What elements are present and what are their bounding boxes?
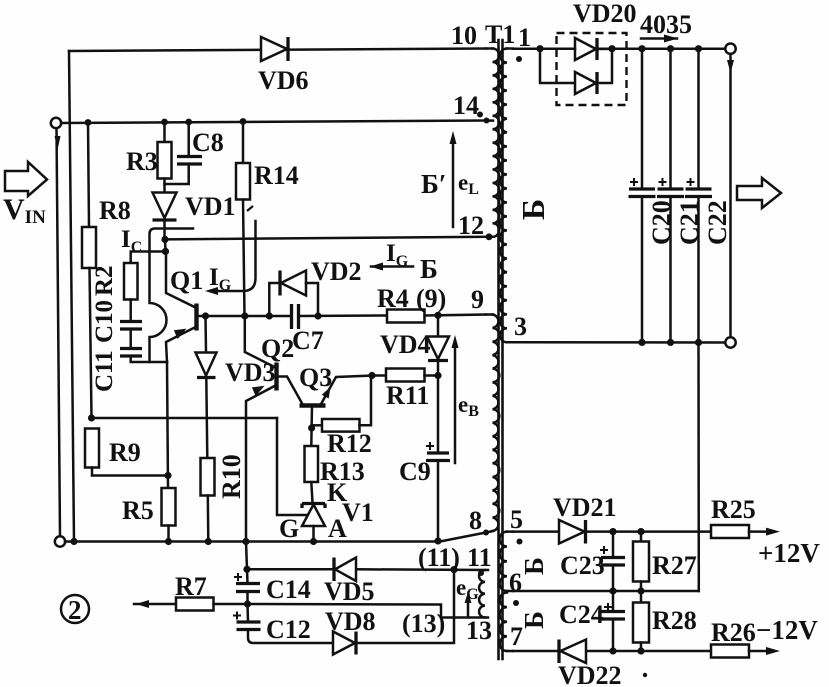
junction VD8 riser top <box>450 566 457 573</box>
svg-text:R4: R4 <box>377 284 409 313</box>
resistor R13 <box>305 428 319 503</box>
V1 label <box>342 498 374 527</box>
resistor R8 <box>82 123 96 418</box>
junction VD2 left <box>266 312 273 319</box>
svg-text:R3: R3 <box>126 147 158 176</box>
T1 secondary winding 5-6 <box>500 532 513 591</box>
junction collector node <box>162 239 169 255</box>
VD1 label <box>185 192 236 221</box>
pin 11 label <box>467 543 492 572</box>
svg-text:Б: Б <box>519 557 549 575</box>
polarity dot winding 6-7 <box>513 600 519 606</box>
svg-text:C11: C11 <box>91 350 118 392</box>
resistor R27 <box>633 532 649 591</box>
svg-text:14: 14 <box>453 91 479 120</box>
wire 9 to winding <box>438 313 486 316</box>
junction VD1 / 12-rail <box>161 236 168 243</box>
resistor R14 <box>236 122 250 317</box>
R4 label <box>377 284 409 313</box>
diode VD22 <box>559 640 586 664</box>
output terminal top <box>725 44 735 54</box>
e_L label <box>458 170 479 198</box>
junction C20 top <box>638 45 645 52</box>
svg-text:Q1: Q1 <box>170 266 203 295</box>
svg-text:5: 5 <box>510 505 523 534</box>
VD22 label <box>558 661 622 687</box>
wire output load line <box>727 54 734 337</box>
Q3 label <box>299 363 332 392</box>
pin 5 label <box>510 505 523 534</box>
svg-text:C22: C22 <box>703 200 732 245</box>
I_G label right <box>386 240 409 270</box>
R13 label <box>320 457 365 486</box>
C21 rotated label <box>675 200 704 245</box>
V_IN block arrow <box>5 162 47 196</box>
pin 6 label <box>509 568 522 597</box>
transformer T1 core <box>499 40 503 659</box>
junction Q2 emitter bottom <box>242 538 249 545</box>
transistor Q2 <box>245 316 303 542</box>
diode VD3 <box>196 316 217 458</box>
svg-text:8: 8 <box>469 506 482 535</box>
wire left input vertical <box>55 128 61 536</box>
wire left return vertical <box>69 51 74 542</box>
diode VD8 <box>333 632 356 655</box>
winding mark B 5-6 rotated <box>519 557 549 575</box>
T1 secondary winding 6-7 <box>500 593 513 652</box>
R28 label <box>652 606 697 635</box>
R27 label <box>652 551 697 580</box>
VD20 dashed box <box>557 33 627 105</box>
VD20 label <box>573 0 637 28</box>
junction Q3 base / R12 / R13 <box>308 424 315 431</box>
polarity dot pin 14 <box>477 112 483 118</box>
svg-text:C24: C24 <box>559 600 604 629</box>
junction R27 top <box>637 528 644 535</box>
VD21 label <box>553 493 617 522</box>
svg-text:3: 3 <box>514 312 527 341</box>
T1 feedback winding 11-13 <box>479 570 485 618</box>
junction R5 bottom <box>165 538 172 545</box>
annotation e_G arrow <box>465 592 472 616</box>
svg-text:Q3: Q3 <box>299 363 332 392</box>
svg-text:(9): (9) <box>416 284 446 313</box>
VD4 label <box>380 330 431 359</box>
resistor R9 <box>85 429 168 476</box>
wire secondary bottom rail pin 3 <box>513 341 725 344</box>
svg-text:10: 10 <box>451 21 477 50</box>
output terminal bottom <box>725 337 735 347</box>
speck mark <box>643 673 647 677</box>
polarity dot pin 11 <box>478 570 484 576</box>
junction C23 bottom <box>609 587 616 594</box>
wire secondary top rail <box>513 47 725 50</box>
thyristor V1 <box>277 418 325 542</box>
VD8 label <box>325 607 376 636</box>
svg-text:R12: R12 <box>327 429 372 458</box>
pin 7 label <box>510 622 523 651</box>
C14 label <box>266 575 311 604</box>
V1 K label <box>327 478 348 507</box>
wire R7 node to pin 13 <box>248 604 488 618</box>
winding mark B near e_L <box>421 169 446 199</box>
junction pin 12 <box>486 233 493 240</box>
svg-text:R8: R8 <box>99 196 131 225</box>
winding mark B 6-7 rotated <box>519 611 549 629</box>
junction VD4 / R11 / C9 <box>434 372 441 379</box>
+12V label <box>758 538 820 568</box>
pin 12 label <box>458 211 484 240</box>
pin 3 label <box>514 312 527 341</box>
diode VD6 <box>261 37 288 61</box>
polarity dot pin 1 <box>516 56 522 62</box>
C7 label <box>292 326 324 355</box>
diode VD20 upper <box>540 38 612 60</box>
capacitor C12 <box>233 612 261 630</box>
junction R8 top <box>85 119 92 126</box>
V1 A label <box>328 514 347 543</box>
svg-text:VD8: VD8 <box>325 607 376 636</box>
svg-text:−12V: −12V <box>756 615 818 645</box>
node (11) label <box>418 543 460 572</box>
pin 9 label <box>471 285 484 314</box>
R11 label <box>386 381 429 410</box>
resistor R11 <box>372 369 438 382</box>
R25 label <box>711 495 756 524</box>
svg-text:G: G <box>279 514 299 543</box>
capacitor C21 <box>657 49 684 343</box>
svg-text:T1: T1 <box>485 20 515 49</box>
R9 label <box>109 438 141 467</box>
resistor R4 <box>387 310 438 323</box>
capacitor C7 <box>292 304 299 329</box>
svg-text:Б′: Б′ <box>421 169 446 199</box>
T1 primary winding 10-14 and 14-12 <box>486 49 499 237</box>
junction VD3 top <box>202 312 209 319</box>
svg-text:4035: 4035 <box>640 10 692 39</box>
junction bottom rail left return <box>70 538 77 545</box>
resistor R28 <box>633 591 649 651</box>
VD5 label <box>324 577 375 606</box>
wire VD5 row <box>247 568 488 571</box>
pin 1 label <box>518 23 531 52</box>
I_G label left <box>209 264 232 294</box>
svg-text:13: 13 <box>466 616 492 645</box>
wire pin 6 rail <box>513 590 699 593</box>
svg-text:R11: R11 <box>386 381 429 410</box>
diode VD20 lower <box>540 49 612 94</box>
output block arrow <box>737 178 781 208</box>
junction pin 8 <box>483 530 489 536</box>
diode VD21 <box>559 520 586 544</box>
svg-text:C9: C9 <box>399 457 431 486</box>
svg-text:11: 11 <box>467 543 492 572</box>
annotation R7 arrow <box>134 600 176 608</box>
junction R28 bottom <box>637 647 644 654</box>
wire top rail to pin 10 <box>69 49 486 52</box>
wire 14-rail <box>61 121 486 124</box>
svg-text:2: 2 <box>68 595 82 625</box>
input terminal top-left <box>51 118 61 128</box>
wire gate rail <box>92 417 278 420</box>
R3 label <box>126 147 158 176</box>
junction VD20 left <box>536 45 543 52</box>
svg-text:Б: Б <box>519 611 549 629</box>
junction R8 / R9 / gate rail <box>88 414 95 421</box>
capacitor C10 <box>120 322 142 349</box>
junction C22 bottom / ground riser <box>695 339 702 346</box>
R10 rotated label <box>217 454 246 499</box>
wire snubber hook <box>150 229 194 363</box>
svg-text:A: A <box>328 514 347 543</box>
wire bottom rail <box>65 533 486 542</box>
resistor R10 <box>201 458 215 542</box>
input terminal bottom-left <box>55 536 65 546</box>
svg-text:R7: R7 <box>175 572 207 601</box>
V1 G label <box>279 514 299 543</box>
C20 rotated label <box>647 200 676 245</box>
e_G label <box>456 575 479 603</box>
wire pin 5 rail <box>513 530 711 533</box>
wire base rail 9 <box>198 314 387 317</box>
node (13) label <box>402 609 445 638</box>
C9 label <box>399 457 431 486</box>
junction R10 bottom <box>205 538 212 545</box>
svg-text:+12V: +12V <box>758 538 820 568</box>
resistor R12 <box>312 376 371 432</box>
svg-text:C23: C23 <box>560 551 605 580</box>
R2 C10 C11 rotated labels <box>91 265 118 392</box>
C8 label <box>192 128 224 157</box>
R5 label <box>122 496 154 525</box>
svg-text:(13): (13) <box>402 609 445 638</box>
wire 12-rail <box>165 237 489 240</box>
junction R14 top <box>240 118 247 125</box>
wire Q1 emitter down to R5 <box>167 362 168 488</box>
junction V1 anode <box>310 538 317 545</box>
VD3 label <box>225 358 276 387</box>
junction R7 node <box>244 600 251 607</box>
diode VD5 <box>334 558 356 582</box>
svg-text:VD6: VD6 <box>258 66 309 95</box>
junction VD20 right <box>608 45 615 52</box>
svg-text:R27: R27 <box>652 551 697 580</box>
wire R2 top to collector node <box>131 252 166 264</box>
svg-text:Б: Б <box>515 199 551 220</box>
capacitor C20 <box>629 49 656 343</box>
pin 8 label <box>469 506 482 535</box>
junction pin 14 <box>484 118 490 124</box>
circled figure number 2 <box>61 595 89 625</box>
annotation I_G arrow right <box>370 263 413 271</box>
R7 label <box>175 572 207 601</box>
resistor R7 <box>176 598 248 611</box>
junction C21 top <box>667 45 674 52</box>
junction C21 bottom <box>667 339 674 346</box>
junction C8 top <box>185 119 192 126</box>
R12 label <box>327 429 372 458</box>
svg-text:R14: R14 <box>254 161 299 190</box>
svg-text:VD4: VD4 <box>380 330 431 359</box>
svg-text:R9: R9 <box>109 438 141 467</box>
junction C23 top <box>609 528 616 535</box>
VD2 label <box>311 257 362 286</box>
svg-text:12: 12 <box>458 211 484 240</box>
junction VD2 right <box>314 312 321 319</box>
annotation 4035 arrow <box>641 35 678 43</box>
junction C9 bottom <box>434 537 441 544</box>
junction R27 bottom <box>637 587 644 594</box>
resistor R2 <box>124 263 138 322</box>
resistor R3 <box>158 123 172 192</box>
capacitor C14 <box>234 573 260 592</box>
resistor R25 <box>711 525 780 538</box>
svg-text:VD20: VD20 <box>573 0 637 28</box>
capacitor C8 <box>165 122 203 184</box>
svg-text:VD5: VD5 <box>324 577 375 606</box>
wire pin 7 rail <box>513 650 711 653</box>
svg-text:VD2: VD2 <box>311 257 362 286</box>
junction R4 / VD4 <box>434 312 441 319</box>
node I_C label <box>121 226 142 256</box>
T1 primary winding 9-8 <box>486 315 499 533</box>
annotation e_B arrow <box>452 335 459 463</box>
node (9) label <box>416 284 446 313</box>
junction R3 top <box>161 119 168 126</box>
junction C20 bottom <box>638 339 645 346</box>
diode VD2 <box>269 271 318 317</box>
annotation e_L arrow <box>450 131 457 227</box>
e_B label <box>458 392 479 420</box>
R26 label <box>711 618 756 647</box>
svg-text:R5: R5 <box>122 496 154 525</box>
winding mark B near I_G <box>420 254 438 284</box>
svg-text:C12: C12 <box>266 615 311 644</box>
resistor R26 <box>711 645 780 658</box>
pin 14 label <box>453 91 479 120</box>
pin 10 label <box>451 21 477 50</box>
svg-text:R28: R28 <box>652 606 697 635</box>
junction Q3 emitter / R11 / R12 <box>368 372 375 379</box>
diode VD4 <box>427 315 449 375</box>
capacitor C22 <box>685 49 712 343</box>
transistor Q1 <box>166 252 197 363</box>
T1 label <box>485 20 515 49</box>
C24 label <box>559 600 604 629</box>
R14 label <box>254 161 299 190</box>
annotation I_G arrow left <box>205 206 256 295</box>
-12V label <box>756 615 818 645</box>
svg-text:R26: R26 <box>711 618 756 647</box>
Q1 label <box>170 266 203 295</box>
R8 label <box>99 196 131 225</box>
capacitor C9 <box>426 376 450 542</box>
T1 secondary winding 1-3 <box>500 49 513 343</box>
junction R9 bottom / R5 top <box>164 472 171 479</box>
wire ground riser to pin 6 rail <box>697 342 700 591</box>
C12 label <box>266 615 311 644</box>
VD6 label <box>258 66 309 95</box>
capacitor C23 <box>600 532 625 591</box>
svg-text:Б: Б <box>420 254 438 284</box>
winding mark B secondary rotated <box>515 199 551 220</box>
svg-text:R10: R10 <box>217 454 246 499</box>
junction R14 bottom / Q2 collector <box>241 312 248 319</box>
capacitor C24 <box>601 591 625 651</box>
diode VD1 <box>153 193 177 240</box>
C22 rotated label <box>703 200 732 245</box>
junction C22 top <box>695 45 702 52</box>
svg-text:R25: R25 <box>711 495 756 524</box>
svg-text:VD22: VD22 <box>558 661 622 687</box>
svg-text:C7: C7 <box>292 326 324 355</box>
svg-text:9: 9 <box>471 285 484 314</box>
resistor R5 <box>162 488 176 542</box>
polarity dot pin 5 <box>517 539 523 545</box>
svg-text:R2: R2 <box>91 265 118 296</box>
svg-text:VD1: VD1 <box>185 192 236 221</box>
wire snubber column below rail <box>246 542 333 644</box>
transistor Q3 <box>300 376 373 429</box>
svg-text:C14: C14 <box>266 575 311 604</box>
node V_IN label <box>3 193 46 228</box>
capacitor C11 <box>120 349 167 363</box>
svg-text:C10: C10 <box>91 300 118 343</box>
4035 label <box>640 10 692 39</box>
svg-text:C8: C8 <box>192 128 224 157</box>
C23 label <box>560 551 605 580</box>
wire VD8 row <box>333 570 454 643</box>
junction C24 bottom <box>609 647 616 654</box>
svg-text:Q2: Q2 <box>261 334 294 363</box>
svg-text:VD21: VD21 <box>553 493 617 522</box>
junction VD5 row left <box>243 566 250 573</box>
pin 13 label <box>466 616 492 645</box>
Q2 label <box>261 334 294 363</box>
